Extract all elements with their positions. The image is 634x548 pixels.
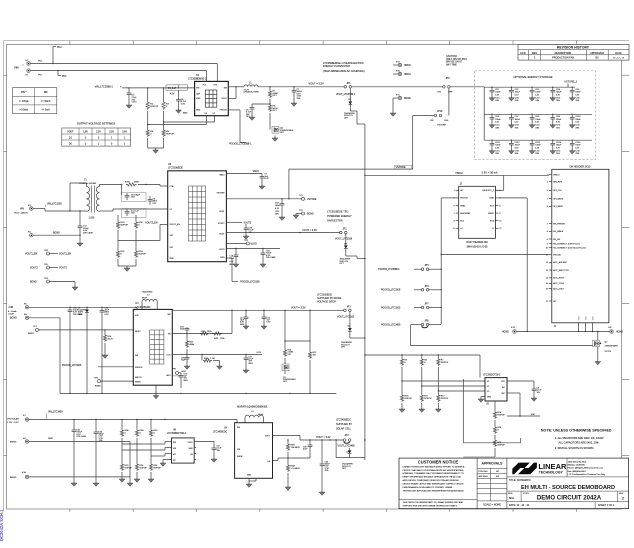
svg-text:SPI_CLK: SPI_CLK xyxy=(553,190,562,192)
svg-text:HMCU: HMCU xyxy=(404,74,411,76)
ground below Q2 xyxy=(595,362,601,365)
capacitor C15 xyxy=(100,307,110,393)
svg-text:PC2: PC2 xyxy=(57,47,62,49)
svg-text:100uF: 100uF xyxy=(575,92,581,94)
svg-text:VSTORE: VSTORE xyxy=(307,199,317,201)
svg-text:>: > xyxy=(120,85,122,89)
svg-text:C1: C1 xyxy=(170,209,172,211)
wire U1 PGOOD to Q4 xyxy=(228,110,246,143)
wire diode OR bus vertical xyxy=(364,124,365,460)
svg-text:SMH-100-02-L-D-05: SMH-100-02-L-D-05 xyxy=(467,246,489,248)
customer notice box xyxy=(399,458,477,509)
svg-text:1210: 1210 xyxy=(495,150,499,152)
inductor L2 xyxy=(142,292,157,310)
svg-text:VSTORE: VSTORE xyxy=(217,193,226,195)
capacitor CO13 xyxy=(529,140,541,156)
J2 pin 9 KC1 xyxy=(454,221,465,223)
ground below R8 R9 xyxy=(153,148,159,153)
U4 internal grid xyxy=(150,330,164,364)
capacitor C21 xyxy=(244,355,255,371)
svg-text:VS1: VS1 xyxy=(170,235,174,237)
svg-text:V1: V1 xyxy=(487,381,489,383)
svg-text:100uF: 100uF xyxy=(275,205,281,207)
wire piezo input bottom xyxy=(30,71,206,82)
wire JP9 to JP10 xyxy=(352,87,484,116)
capacitor C14 xyxy=(68,307,84,393)
text piezo harvester title xyxy=(323,61,365,73)
svg-text:SUPPLIED BY DIODE: SUPPLIED BY DIODE xyxy=(317,297,342,300)
svg-text:SW: SW xyxy=(167,314,170,316)
capacitor CO9 xyxy=(550,114,562,130)
svg-text:VOUT2_EN: VOUT2_EN xyxy=(170,224,181,226)
ground below C5 xyxy=(249,117,255,120)
J2 pin 4 GND xyxy=(489,198,500,200)
svg-text:ONLY JP9 OR JP10: ONLY JP9 OR JP10 xyxy=(446,59,467,61)
svg-text:10: 10 xyxy=(546,248,548,250)
svg-text:1630 McCarthy Blvd.: 1630 McCarthy Blvd. xyxy=(568,461,588,464)
svg-text:OPTIONAL ENERGY STORAGE: OPTIONAL ENERGY STORAGE xyxy=(513,75,552,79)
svg-text:V2: V2 xyxy=(487,386,489,388)
J1 pin 12 NC xyxy=(546,301,557,303)
transformer T1 xyxy=(79,180,99,220)
svg-text:ACC_ZOUT: ACC_ZOUT xyxy=(553,287,565,290)
svg-text:3: 3 xyxy=(547,182,548,184)
svg-text:PGOOD_LTC3588-1: PGOOD_LTC3588-1 xyxy=(229,143,252,146)
J1 pin 14 ACC_XOUT xyxy=(546,277,566,280)
resistor R3C xyxy=(149,420,158,445)
svg-text:RST: RST xyxy=(531,414,536,416)
svg-text:12: 12 xyxy=(499,228,501,230)
svg-text:11: 11 xyxy=(546,254,548,256)
svg-text:20%: 20% xyxy=(515,127,519,129)
svg-text:VLDO: VLDO xyxy=(251,243,257,245)
capacitor CO6 xyxy=(489,114,501,130)
svg-text:VOUT = 3.3V: VOUT = 3.3V xyxy=(291,306,306,309)
resistor R8 xyxy=(146,127,154,148)
svg-text:GND: GND xyxy=(487,397,492,399)
svg-text:100uF: 100uF xyxy=(515,119,521,121)
svg-text:ON: ON xyxy=(430,120,434,122)
J2 pin 7 EH/CPBAT xyxy=(454,212,471,215)
svg-text:NC-CONNECT (USB Power): NC-CONNECT (USB Power) xyxy=(553,244,580,246)
text U3 designator xyxy=(168,163,183,170)
svg-text:VIN_LTC3588-1: VIN_LTC3588-1 xyxy=(95,84,114,88)
svg-text:20%: 20% xyxy=(275,214,279,216)
test point TP4 xyxy=(25,250,72,256)
svg-text:BGND: BGND xyxy=(95,385,101,387)
jumper JP2 xyxy=(335,229,353,241)
svg-text:R2A: R2A xyxy=(204,357,209,360)
svg-text:VOUT = 3.3V: VOUT = 3.3V xyxy=(302,229,317,232)
ground below C2 xyxy=(291,103,297,106)
inductor L1 xyxy=(244,82,260,93)
svg-text:100uF: 100uF xyxy=(556,119,562,121)
ground below R3D xyxy=(119,479,125,482)
svg-text:BGND: BGND xyxy=(307,214,314,216)
capacitor C28 xyxy=(244,228,255,237)
svg-text:TECHNOLOGY: TECHNOLOGY xyxy=(539,471,564,475)
capacitor CO12 xyxy=(509,140,521,156)
ground below C21 xyxy=(243,370,249,373)
wire D4 to OR bus xyxy=(350,337,365,339)
svg-text:100uF: 100uF xyxy=(515,145,521,147)
capacitor C1 cell box xyxy=(166,85,188,95)
svg-text:D2E CASE: D2E CASE xyxy=(266,256,276,259)
ground below C3 xyxy=(126,105,132,108)
net label 3.3V 50mA xyxy=(482,171,498,175)
net label VIN_LTC3108 xyxy=(46,203,63,207)
J2 pin 6 KC2 xyxy=(490,205,501,207)
svg-text:LTC3588EMSE-1: LTC3588EMSE-1 xyxy=(188,79,207,81)
table output voltage settings xyxy=(62,122,131,147)
svg-text:ZXMN2F34FH: ZXMN2F34FH xyxy=(605,345,619,347)
svg-text:CO6: CO6 xyxy=(495,116,499,118)
svg-text:8: 8 xyxy=(499,213,500,215)
wire T1 primary xyxy=(45,183,87,212)
text U5 designator xyxy=(213,427,228,433)
J1 pin 5 SPI_CLK xyxy=(547,190,563,192)
capacitor CO8 xyxy=(529,114,541,130)
J1 pin 13 ACC_ASLEEP xyxy=(546,261,568,264)
J2 pin 12 -V xyxy=(492,228,502,230)
svg-text:14: 14 xyxy=(546,278,548,280)
capacitor C19 xyxy=(172,310,233,335)
svg-text:CO8: CO8 xyxy=(535,116,539,118)
optional energy storage dashed box xyxy=(475,71,596,160)
svg-text:VOUT: VOUT xyxy=(188,442,194,444)
wire HGND rail xyxy=(516,331,609,332)
text caution note xyxy=(446,55,467,66)
svg-text:CO7: CO7 xyxy=(515,116,519,118)
ground below U2 xyxy=(478,399,484,402)
wire R3 rows to U6 xyxy=(122,442,170,457)
svg-text:18: 18 xyxy=(546,288,548,290)
svg-text:VOUT = 3.3V: VOUT = 3.3V xyxy=(309,81,324,85)
resistor R1 xyxy=(268,87,278,104)
text murata part xyxy=(237,405,268,408)
text LTC3105 supplied by xyxy=(317,294,342,304)
ground below R3E xyxy=(134,479,140,482)
svg-text:R1B: R1B xyxy=(201,331,206,333)
wire U3 VOUT 3.3V to JP2 xyxy=(226,232,340,233)
svg-text:SPI_RES: SPI_RES xyxy=(553,182,562,184)
svg-text:3.6V: 3.6V xyxy=(122,131,127,133)
svg-text:*: * xyxy=(23,65,24,68)
svg-text:RSVD: RSVD xyxy=(488,213,494,215)
svg-text:1210: 1210 xyxy=(495,97,499,99)
capacitor C34 xyxy=(94,420,105,484)
svg-text:CO5: CO5 xyxy=(575,89,579,91)
svg-text:CIRCUIT THAT MEETS CUSTOMER-SU: CIRCUIT THAT MEETS CUSTOMER-SUPPLIED SPE… xyxy=(403,469,465,472)
J1 pin 8 NC-CONNECT (USB Power) xyxy=(547,244,580,246)
svg-text:OPT: OPT xyxy=(344,117,349,119)
test point TP2 BGND xyxy=(296,210,314,216)
svg-text:RN: RN xyxy=(44,91,48,94)
svg-text:15: 15 xyxy=(546,270,548,272)
svg-text:OPT: OPT xyxy=(273,110,278,112)
svg-text:100uF: 100uF xyxy=(535,119,541,121)
capacitor C23 xyxy=(179,373,188,388)
svg-text:MPPC: MPPC xyxy=(28,333,35,335)
svg-text:2: 2 xyxy=(622,497,624,501)
capacitor C1J box xyxy=(122,209,146,218)
capacitor CO1 xyxy=(489,87,501,103)
svg-text:NOPOP: NOPOP xyxy=(441,398,449,400)
svg-text:VOUT2: VOUT2 xyxy=(59,267,67,269)
svg-text:BGND: BGND xyxy=(404,98,411,100)
wire U5 FB xyxy=(273,458,289,461)
wire solar input rail xyxy=(29,419,237,423)
svg-text:20%: 20% xyxy=(575,153,579,155)
svg-text:1210: 1210 xyxy=(575,150,579,152)
op-amp U2 LTC2935 body xyxy=(485,378,507,401)
svg-text:VOUT = 3.3V: VOUT = 3.3V xyxy=(316,436,331,439)
svg-text:SW: SW xyxy=(173,442,176,444)
svg-text:JP2: JP2 xyxy=(343,229,348,231)
ground below C12 xyxy=(77,243,83,246)
resistor R22 xyxy=(308,341,317,393)
svg-text:VOUT2: VOUT2 xyxy=(30,267,38,269)
svg-text:DC2042A SCH.1: DC2042A SCH.1 xyxy=(0,509,4,541)
U4 pin labels xyxy=(135,314,171,384)
svg-text:5: 5 xyxy=(454,205,455,207)
svg-text:RF_WAKE: RF_WAKE xyxy=(553,230,564,233)
svg-text:HGND: HGND xyxy=(502,331,509,333)
svg-text:ALL CAPACITORS ARE 0402, 10%: ALL CAPACITORS ARE 0402, 10% xyxy=(559,441,600,445)
capacitor C3 xyxy=(127,88,138,105)
svg-text:VAUX: VAUX xyxy=(219,173,225,176)
svg-text:680K: 680K xyxy=(134,181,140,183)
svg-text:NOPOP: NOPOP xyxy=(498,414,506,416)
svg-text:20%: 20% xyxy=(575,100,579,102)
svg-text:PGOOD_LTC3105: PGOOD_LTC3105 xyxy=(62,365,82,367)
svg-text:0603: 0603 xyxy=(184,380,188,382)
net label VOUT 3.3V mid xyxy=(302,229,317,232)
test point TP7 MPPC xyxy=(28,326,133,335)
svg-text:GND: GND xyxy=(247,475,252,477)
net label VOUT_LTC3588-1 xyxy=(336,94,356,96)
svg-text:N/A: N/A xyxy=(509,496,515,500)
turret E12 xyxy=(393,61,411,67)
capacitor C1G xyxy=(275,199,284,217)
capacitor C6 box xyxy=(122,185,146,202)
svg-text:1. ALL RESISTORS ARE 0402, 1%,: 1. ALL RESISTORS ARE 0402, 1%, 1/16W xyxy=(555,436,604,440)
resistor R1G xyxy=(125,181,168,186)
svg-text:PGOOD: PGOOD xyxy=(460,198,468,200)
diode D2 xyxy=(344,88,355,119)
svg-text:(HIGH-IMPEDANCE AC SOURCES): (HIGH-IMPEDANCE AC SOURCES) xyxy=(323,69,365,73)
svg-text:100uF: 100uF xyxy=(535,92,541,94)
svg-text:2.5V: 2.5V xyxy=(96,131,101,133)
svg-text:HMCU: HMCU xyxy=(456,172,464,175)
svg-text:100uF: 100uF xyxy=(535,145,541,147)
svg-text:1.72V - 3.3V: 1.72V - 3.3V xyxy=(7,422,19,424)
resistor R1B xyxy=(200,331,212,335)
wire U4 ground bus xyxy=(60,393,336,394)
svg-text:LTC3105EDD: LTC3105EDD xyxy=(135,306,150,309)
svg-text:VSTORE_1: VSTORE_1 xyxy=(564,80,577,83)
svg-text:1210: 1210 xyxy=(535,124,539,126)
jumper JP6 PGOOD_LTC3108 xyxy=(381,286,442,292)
svg-text:C1G: C1G xyxy=(275,202,279,204)
title block outer box xyxy=(399,458,629,509)
svg-text:VCC: VCC xyxy=(501,381,506,383)
resistor R21 xyxy=(185,334,195,355)
jumper JP8 PGOOD_LTC3459 xyxy=(381,321,441,328)
svg-text:EH MULTI - SOURCE DEMOBOARD: EH MULTI - SOURCE DEMOBOARD xyxy=(521,485,615,491)
svg-text:SHEET 1 OF 1: SHEET 1 OF 1 xyxy=(598,504,615,507)
svg-text:56uH: 56uH xyxy=(258,414,263,416)
net label VOUT 3.3V U4 xyxy=(291,306,306,309)
resistor R9 xyxy=(148,127,175,148)
svg-text:R2B: R2B xyxy=(214,338,219,340)
connector J1 DH header body xyxy=(552,165,609,327)
diode D6 xyxy=(336,440,365,470)
svg-text:ENERGY HARVESTER: ENERGY HARVESTER xyxy=(323,64,350,68)
J1 pin 11 PGOOD xyxy=(546,254,562,256)
resistor R1D xyxy=(116,215,128,236)
svg-text:HARVESTER: HARVESTER xyxy=(327,219,343,223)
test point TP3 VLDO xyxy=(226,240,257,245)
svg-text:D2E CASE: D2E CASE xyxy=(77,435,87,438)
J2 pin 3 PGOOD xyxy=(454,198,469,200)
ground at U6 xyxy=(160,460,171,467)
svg-text:> 10Vpk: > 10Vpk xyxy=(19,108,28,111)
ground below C7 xyxy=(259,186,265,189)
svg-text:VOUT: VOUT xyxy=(67,131,74,133)
wire VSTORE pin to TP1 xyxy=(226,198,301,199)
J1 pin 18 ACC_ZOUT xyxy=(546,287,565,290)
svg-text:PGOOD_LTC3108: PGOOD_LTC3108 xyxy=(381,290,401,292)
svg-text:EH/CPBAT: EH/CPBAT xyxy=(460,212,471,215)
svg-text:VOUT2_EN: VOUT2_EN xyxy=(59,253,72,255)
svg-text:GND: GND xyxy=(489,198,494,200)
ground below U5 xyxy=(246,484,252,487)
resistor R6b xyxy=(420,355,428,386)
svg-text:20%: 20% xyxy=(297,98,301,100)
capacitor C2 xyxy=(292,87,303,103)
svg-text:CUSTOMER NOTICE: CUSTOMER NOTICE xyxy=(418,459,459,464)
J1 pin 10 NC-CONNECT (3.3V Board Power) xyxy=(546,248,586,250)
wire U1 D0 D1 pins xyxy=(147,116,215,127)
resistor R3E xyxy=(135,444,147,479)
svg-text:SPI_MOSI: SPI_MOSI xyxy=(553,199,563,201)
J2 pin 1 NC xyxy=(454,190,464,192)
wire U3 VOUT caps xyxy=(226,248,280,249)
wire HMCU 3.3V bus xyxy=(364,175,504,191)
svg-text:OFF: OFF xyxy=(444,120,449,122)
net label PGOOD_LTC3588-1 at U1 xyxy=(229,143,252,146)
diode D1 xyxy=(78,307,89,393)
svg-text:HMCU: HMCU xyxy=(404,65,411,67)
net label VOUT2 arrow xyxy=(226,222,252,228)
svg-text:7: 7 xyxy=(547,199,548,201)
svg-text:BGND: BGND xyxy=(10,441,17,443)
svg-text:VIN SOLAR: VIN SOLAR xyxy=(7,417,19,420)
svg-text:CO2: CO2 xyxy=(515,89,519,91)
svg-text:6: 6 xyxy=(547,239,548,241)
svg-text:LTC2935CTS8-2: LTC2935CTS8-2 xyxy=(483,375,501,377)
svg-text:20%: 20% xyxy=(535,153,539,155)
svg-text:SHDN: SHDN xyxy=(237,456,243,458)
svg-text:BGND: BGND xyxy=(30,281,37,283)
wire U1 output 3.3V rail xyxy=(228,86,344,98)
svg-text:1210: 1210 xyxy=(575,97,579,99)
J2 pin 5 VBAT xyxy=(454,204,467,207)
svg-text:SW: SW xyxy=(237,427,240,429)
svg-text:APPLICATION. COMPONENT SUBSTIT: APPLICATION. COMPONENT SUBSTITUTION AND … xyxy=(403,479,460,482)
svg-text:CO13: CO13 xyxy=(535,142,540,144)
svg-text:PZ1: PZ1 xyxy=(203,85,207,87)
svg-text:DH HEADER 2X10: DH HEADER 2X10 xyxy=(570,165,591,168)
capacitor C8 xyxy=(148,196,158,205)
U3 internal grid xyxy=(189,186,206,241)
side label vertical blue text xyxy=(0,509,4,541)
svg-text:VSTORE: VSTORE xyxy=(437,125,446,127)
ground below R12 xyxy=(435,409,441,412)
capacitor C1D xyxy=(261,249,277,265)
resistor R3N xyxy=(286,443,300,458)
svg-text:VERIFY PROPER AND RELIABLE OPE: VERIFY PROPER AND RELIABLE OPERATION IN … xyxy=(403,476,462,479)
svg-text:1.96 MEG: 1.96 MEG xyxy=(291,447,300,449)
svg-text:100uF: 100uF xyxy=(575,119,581,121)
wire JP10 to VSTORE label xyxy=(413,116,435,168)
title rows xyxy=(507,477,629,509)
svg-text:VS2: VS2 xyxy=(170,247,174,249)
resistor R2A xyxy=(202,355,220,367)
svg-text:NOPOP: NOPOP xyxy=(125,467,133,469)
svg-text:NC: NC xyxy=(496,471,500,473)
svg-text:20%: 20% xyxy=(495,127,499,129)
resistor R24 xyxy=(103,330,113,355)
resistor R7 xyxy=(437,355,449,391)
svg-text:20%: 20% xyxy=(515,100,519,102)
svg-text:JP7: JP7 xyxy=(425,304,430,306)
svg-text:NOPOP: NOPOP xyxy=(166,133,174,135)
text LT address xyxy=(568,461,607,476)
svg-text:JP9: JP9 xyxy=(446,78,451,80)
capacitor C37 xyxy=(196,442,222,460)
jumper JP1 xyxy=(344,83,352,88)
ground below E8 E14 rail xyxy=(127,483,133,486)
svg-text:<= 5mA: <= 5mA xyxy=(42,108,51,111)
transistor Q3 xyxy=(282,364,296,383)
svg-text:ANY TIME: ANY TIME xyxy=(446,63,457,66)
logo Linear Technology xyxy=(512,458,567,477)
svg-text:CO15: CO15 xyxy=(575,142,580,144)
svg-text:SUPPLIED FOR USE WITH LINEAR T: SUPPLIED FOR USE WITH LINEAR TECHNOLOGY … xyxy=(403,504,458,507)
svg-text:JP4: JP4 xyxy=(345,435,350,437)
turret E5 xyxy=(8,304,29,316)
svg-text:LTC3105EDD: LTC3105EDD xyxy=(317,294,332,297)
wire U2 ground xyxy=(481,397,485,400)
svg-text:JP1: JP1 xyxy=(347,83,352,85)
wire R dividers to U2 pins xyxy=(402,381,485,391)
svg-text:100uF: 100uF xyxy=(495,145,501,147)
svg-text:VOLTAGE DROP: VOLTAGE DROP xyxy=(317,301,336,304)
svg-text:20%: 20% xyxy=(535,127,539,129)
svg-text:16V: 16V xyxy=(131,213,135,215)
svg-text:1210: 1210 xyxy=(515,124,519,126)
svg-text:2: 2 xyxy=(499,190,500,192)
resistor R3D xyxy=(120,444,132,479)
net label VOUT2_EN at U3 xyxy=(145,223,158,225)
svg-text:ACC_XOUT: ACC_XOUT xyxy=(553,277,565,280)
svg-text:SOT23: SOT23 xyxy=(605,351,612,353)
svg-text:R1G: R1G xyxy=(125,181,130,183)
test point TP5 xyxy=(30,264,67,270)
svg-text:CIRCUIT BOARD LAYOUT MAY SIGNI: CIRCUIT BOARD LAYOUT MAY SIGNIFICANTLY A… xyxy=(403,483,465,486)
